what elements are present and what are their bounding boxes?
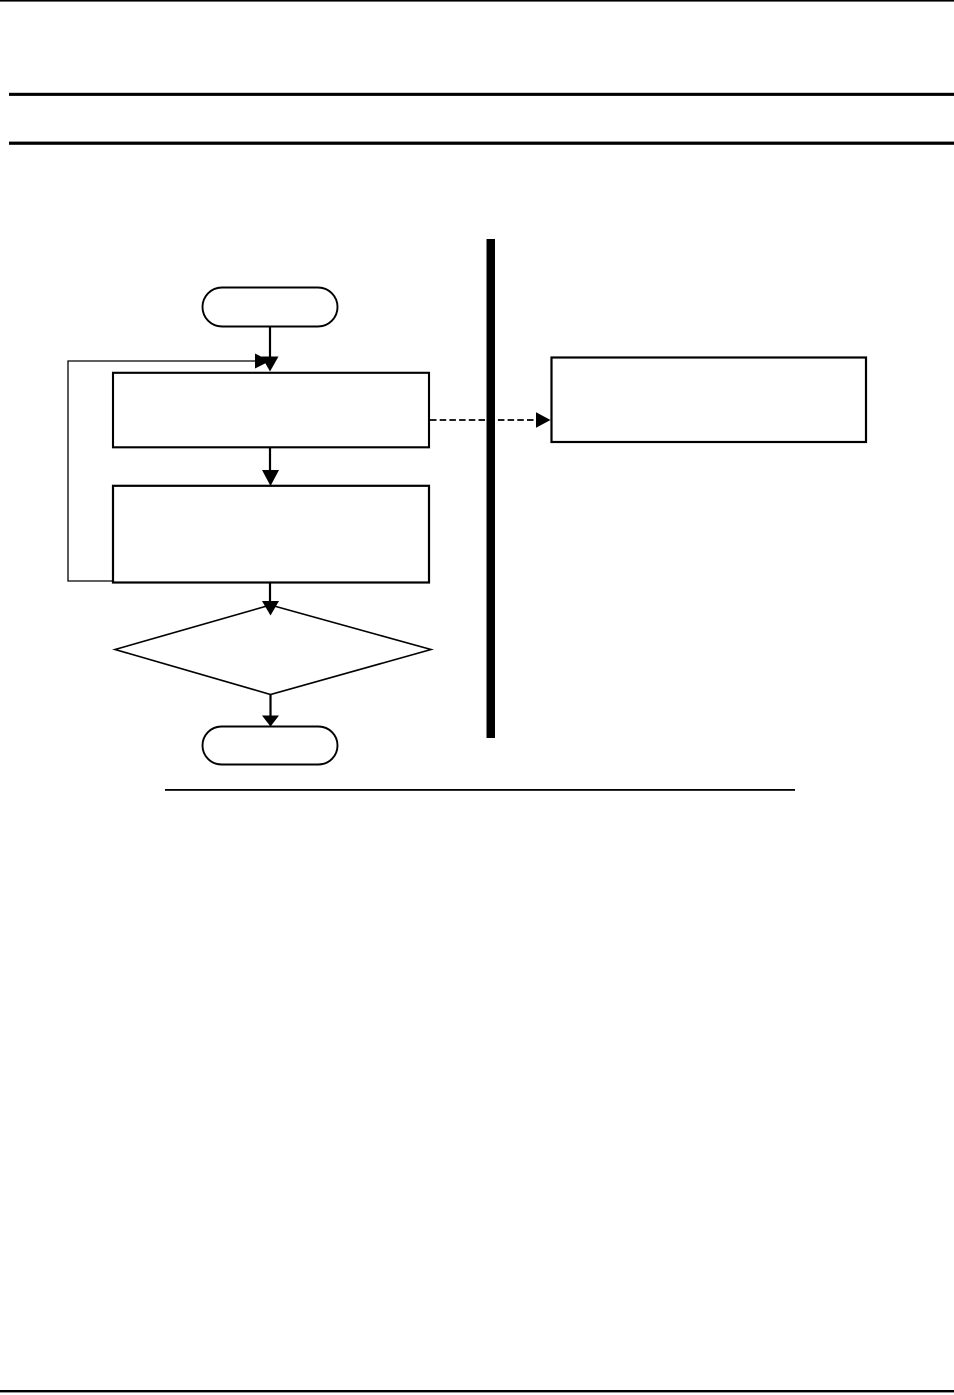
process box 1 <box>113 373 429 448</box>
arrowhead into end terminator <box>262 716 279 727</box>
swimlane divider bar <box>487 239 496 738</box>
end terminator <box>203 727 338 765</box>
wire process 1 to process 2 <box>269 448 271 472</box>
side note box <box>552 358 867 443</box>
start terminator <box>203 288 338 327</box>
arrowhead into process 1 (down) <box>262 357 279 372</box>
loop-back arrowhead (right-pointing) <box>255 354 270 369</box>
header rule lower <box>9 142 954 145</box>
decision diamond <box>115 605 431 695</box>
header rule upper <box>9 93 954 96</box>
page bottom border line <box>0 1390 954 1392</box>
arrowhead into decision <box>262 601 279 616</box>
dashed wire process 1 to side box <box>430 419 537 421</box>
loop-back wire top segment <box>68 361 256 581</box>
caption underline <box>165 789 795 791</box>
arrowhead into process 2 <box>262 470 279 486</box>
page top border line <box>0 0 954 2</box>
wire start to process 1 <box>269 327 271 360</box>
wire process 2 to decision <box>269 583 271 602</box>
process box 2 <box>113 486 429 583</box>
wire decision to end <box>269 695 271 716</box>
arrowhead into side box (right-pointing) <box>536 412 551 428</box>
